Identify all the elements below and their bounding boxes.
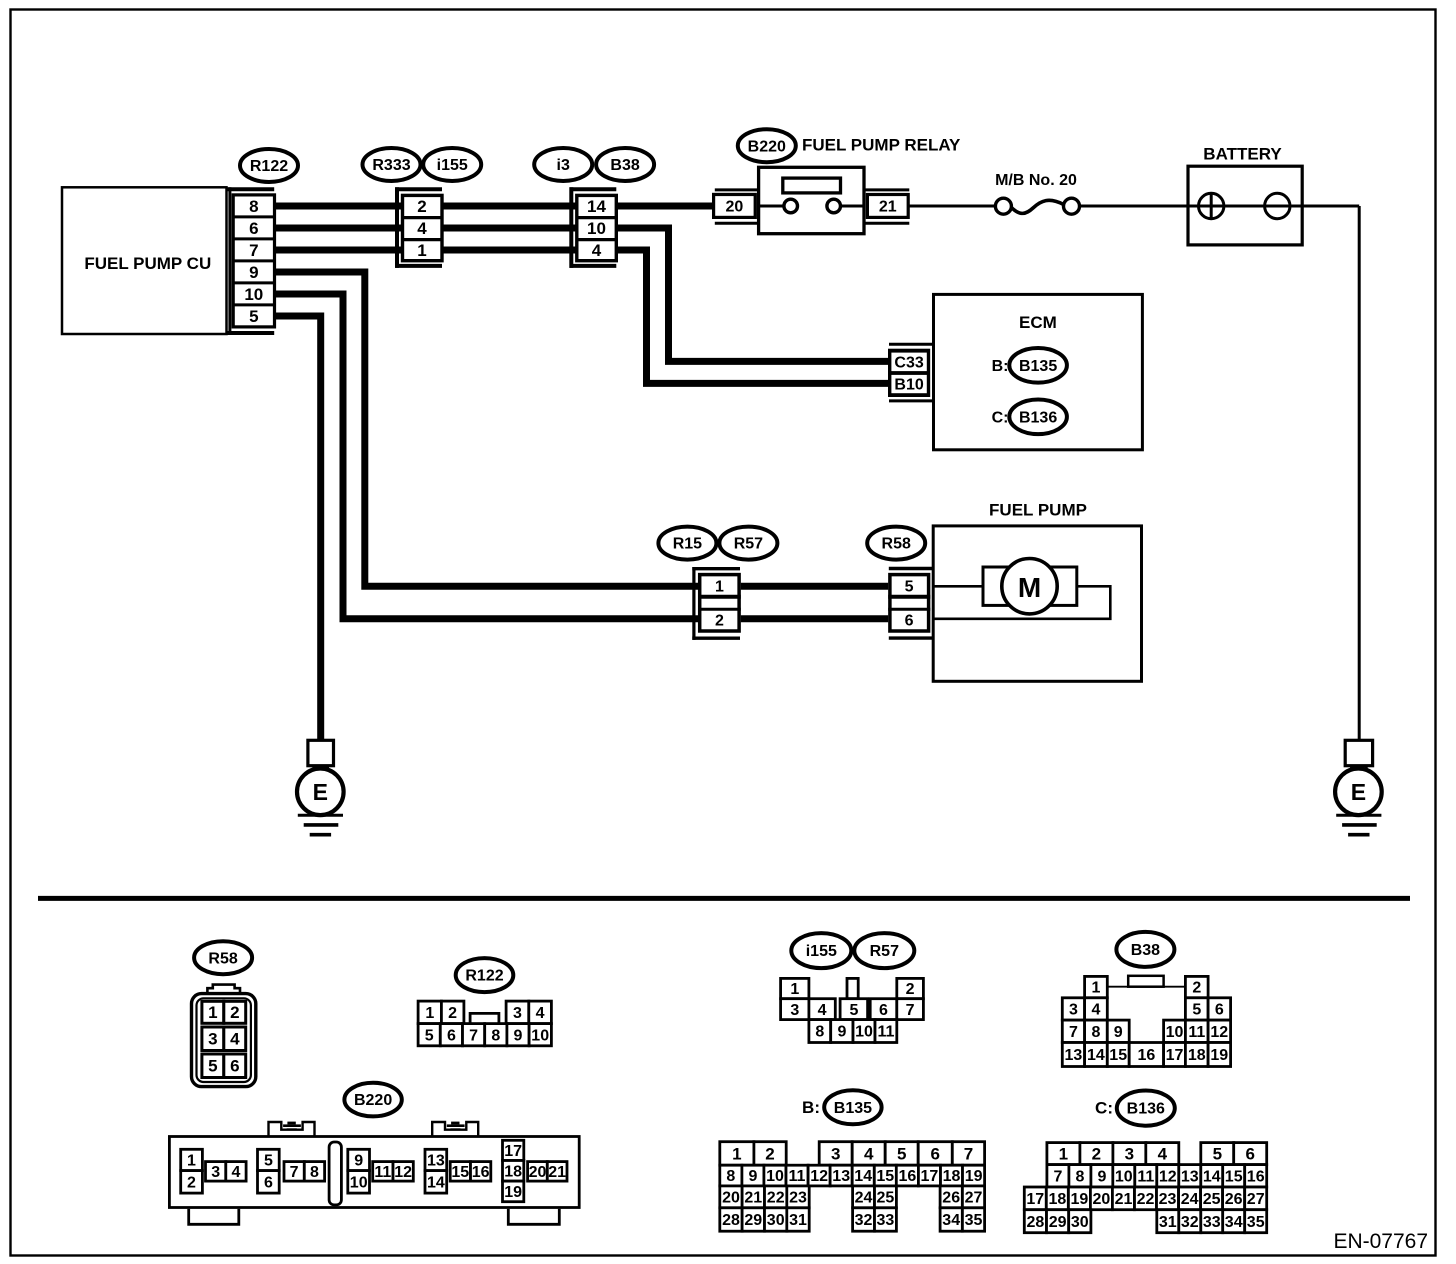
pump internal wire loop <box>933 586 1110 619</box>
svg-text:4: 4 <box>417 219 427 238</box>
svg-text:C:: C: <box>992 409 1009 426</box>
fuse terminal circle right <box>1064 198 1080 214</box>
svg-text:1: 1 <box>425 1005 434 1022</box>
svg-text:6: 6 <box>264 1174 273 1191</box>
B220 center key slot <box>329 1142 341 1205</box>
svg-text:19: 19 <box>504 1184 522 1201</box>
fuel pump control unit box <box>62 187 227 334</box>
pinout label B135 <box>824 1090 881 1124</box>
svg-text:R57: R57 <box>870 943 899 960</box>
svg-text:11: 11 <box>789 1168 806 1185</box>
R58 pinout housing <box>192 985 256 1087</box>
right ground symbol E <box>1335 740 1382 834</box>
svg-text:9: 9 <box>354 1153 363 1170</box>
svg-text:7: 7 <box>290 1164 299 1181</box>
wire CU pin7 to R333 pin1 <box>275 247 403 254</box>
svg-text:10: 10 <box>244 285 263 304</box>
pinout label B38 <box>1116 932 1174 967</box>
svg-text:5: 5 <box>1192 1002 1201 1019</box>
svg-text:9: 9 <box>249 263 258 282</box>
connector label B136 in ECM <box>1009 400 1067 435</box>
svg-text:8: 8 <box>815 1024 824 1041</box>
svg-text:5: 5 <box>905 578 914 595</box>
svg-text:15: 15 <box>1225 1168 1243 1185</box>
svg-text:11: 11 <box>374 1164 391 1181</box>
svg-text:24: 24 <box>855 1190 873 1207</box>
wire CU pin5 to ground E <box>275 316 321 741</box>
svg-text:4: 4 <box>536 1005 545 1022</box>
svg-text:8: 8 <box>491 1027 500 1044</box>
svg-text:B135: B135 <box>834 1100 872 1117</box>
svg-text:10: 10 <box>855 1024 873 1041</box>
svg-text:8: 8 <box>1091 1024 1100 1041</box>
svg-text:20: 20 <box>722 1190 740 1207</box>
relay coil symbol <box>783 178 841 193</box>
svg-text:30: 30 <box>1071 1214 1089 1231</box>
pinout label R58 <box>194 941 252 974</box>
battery internal line <box>1188 205 1359 208</box>
B220 pinout housing <box>169 1137 579 1208</box>
left ground symbol E <box>297 740 344 834</box>
svg-text:22: 22 <box>767 1190 785 1207</box>
svg-text:B38: B38 <box>610 157 639 174</box>
svg-text:5: 5 <box>208 1057 217 1076</box>
fuse element wave <box>1011 200 1063 213</box>
wire R57 pin1 to R58 pin5 <box>741 583 888 590</box>
svg-text:4: 4 <box>864 1144 874 1163</box>
svg-text:25: 25 <box>877 1190 895 1207</box>
ECM connector pin box C33 B10 <box>888 349 930 397</box>
svg-text:13: 13 <box>1181 1168 1199 1185</box>
svg-text:25: 25 <box>1203 1191 1221 1208</box>
svg-text:R333: R333 <box>372 157 410 174</box>
svg-text:2: 2 <box>715 613 724 630</box>
svg-text:28: 28 <box>722 1212 740 1229</box>
svg-text:M: M <box>1018 572 1041 603</box>
svg-text:13: 13 <box>427 1153 445 1170</box>
svg-text:11: 11 <box>1188 1024 1205 1041</box>
svg-text:4: 4 <box>1091 1002 1100 1019</box>
connector R333/i155 bracket <box>395 187 442 268</box>
svg-text:31: 31 <box>1159 1214 1177 1231</box>
svg-text:4: 4 <box>592 241 602 260</box>
connector label i3 <box>534 148 592 181</box>
svg-text:7: 7 <box>1053 1168 1062 1185</box>
svg-text:6: 6 <box>1245 1145 1254 1164</box>
svg-text:i3: i3 <box>557 157 570 174</box>
svg-text:3: 3 <box>1069 1002 1078 1019</box>
wire R57 pin2 to R58 pin6 <box>741 615 888 622</box>
svg-text:7: 7 <box>964 1144 973 1163</box>
wire relay pin21 to fuse <box>908 205 995 208</box>
svg-text:9: 9 <box>837 1024 846 1041</box>
svg-text:10: 10 <box>1115 1168 1133 1185</box>
connector R58 pin box pins 5 6 <box>888 575 930 631</box>
connector label B220 <box>738 129 796 162</box>
svg-text:M/B No. 20: M/B No. 20 <box>995 172 1077 189</box>
svg-text:8: 8 <box>249 197 258 216</box>
B136 pinout pins 1-35 <box>1024 1143 1266 1233</box>
R122 pinout pins 1-10 <box>418 1001 551 1046</box>
svg-text:8: 8 <box>726 1168 735 1185</box>
svg-text:12: 12 <box>1159 1168 1177 1185</box>
svg-text:10: 10 <box>531 1027 549 1044</box>
svg-text:11: 11 <box>877 1024 894 1041</box>
svg-text:2: 2 <box>230 1003 239 1022</box>
svg-text:24: 24 <box>1181 1191 1199 1208</box>
svg-text:3: 3 <box>211 1164 220 1181</box>
svg-text:23: 23 <box>1159 1191 1177 1208</box>
svg-text:R58: R58 <box>882 536 911 553</box>
svg-text:E: E <box>313 779 328 805</box>
battery positive terminal <box>1199 193 1224 218</box>
svg-text:11: 11 <box>1137 1168 1154 1185</box>
wire i3 pin4 to ECM B10 <box>616 250 893 383</box>
svg-text:B10: B10 <box>894 377 923 394</box>
svg-text:14: 14 <box>587 197 606 216</box>
pinout label B220 <box>344 1083 401 1117</box>
svg-text:33: 33 <box>1203 1214 1221 1231</box>
relay contact circle right <box>827 199 841 213</box>
svg-text:19: 19 <box>965 1168 983 1185</box>
svg-text:C33: C33 <box>894 354 923 371</box>
svg-text:17: 17 <box>504 1143 522 1160</box>
svg-text:1: 1 <box>790 981 799 998</box>
svg-text:2: 2 <box>417 197 426 216</box>
svg-text:6: 6 <box>249 219 258 238</box>
svg-text:3: 3 <box>513 1005 522 1022</box>
connector R122 pin box pins 8 6 7 9 10 5 <box>233 195 274 327</box>
svg-text:1: 1 <box>715 578 724 595</box>
fuel pump box <box>933 526 1141 681</box>
svg-text:R122: R122 <box>250 158 288 175</box>
relay contact line left <box>759 205 785 208</box>
svg-text:7: 7 <box>906 1002 915 1019</box>
wire battery negative to right ground <box>1358 206 1361 741</box>
svg-text:21: 21 <box>1115 1191 1133 1208</box>
svg-text:35: 35 <box>1247 1214 1265 1231</box>
svg-text:9: 9 <box>1114 1024 1123 1041</box>
svg-text:R58: R58 <box>208 950 237 967</box>
wire CU pin8 to R333 pin2 <box>275 203 403 210</box>
svg-text:30: 30 <box>767 1212 785 1229</box>
svg-text:B220: B220 <box>354 1092 392 1109</box>
connector R333/i155 pin box pins 2 4 1 <box>403 195 443 260</box>
svg-text:23: 23 <box>789 1190 807 1207</box>
svg-text:ECM: ECM <box>1019 313 1057 332</box>
relay pin 21 connector <box>866 190 910 223</box>
connector label R122 <box>240 149 298 182</box>
svg-text:E: E <box>1351 779 1366 805</box>
svg-text:4: 4 <box>232 1164 241 1181</box>
svg-text:12: 12 <box>1210 1024 1228 1041</box>
connector R15/R57 bracket <box>692 567 740 640</box>
connector label B38 <box>596 148 654 181</box>
svg-text:17: 17 <box>1166 1047 1184 1064</box>
svg-text:18: 18 <box>1049 1191 1067 1208</box>
svg-text:27: 27 <box>1247 1191 1265 1208</box>
svg-text:B:: B: <box>802 1098 820 1117</box>
svg-text:10: 10 <box>1166 1024 1184 1041</box>
svg-text:5: 5 <box>249 307 258 326</box>
i155/R57 pinout pins 1-11 <box>781 978 924 1042</box>
svg-text:i155: i155 <box>437 157 468 174</box>
svg-text:7: 7 <box>469 1027 478 1044</box>
svg-text:31: 31 <box>789 1212 807 1229</box>
connector R122 bracket <box>227 187 274 335</box>
wire CU pin9 to R15 pin1 <box>275 272 699 586</box>
svg-text:15: 15 <box>876 1168 894 1185</box>
R58 pinout pins 1-6 <box>202 1001 246 1077</box>
svg-text:15: 15 <box>451 1164 469 1181</box>
svg-text:19: 19 <box>1210 1047 1228 1064</box>
svg-text:20: 20 <box>529 1164 547 1181</box>
battery box <box>1188 166 1302 245</box>
svg-text:27: 27 <box>965 1190 983 1207</box>
svg-text:3: 3 <box>831 1144 840 1163</box>
svg-text:2: 2 <box>187 1174 196 1191</box>
svg-text:10: 10 <box>766 1168 784 1185</box>
B135 pinout pins 1-35 <box>720 1142 985 1232</box>
svg-text:4: 4 <box>230 1030 240 1049</box>
B38 pinout housing top <box>1107 976 1185 987</box>
svg-text:C:: C: <box>1095 1099 1113 1118</box>
svg-text:1: 1 <box>417 241 426 260</box>
connector label R15 <box>658 527 716 560</box>
svg-text:4: 4 <box>818 1002 827 1019</box>
svg-text:FUEL PUMP RELAY: FUEL PUMP RELAY <box>802 135 961 154</box>
svg-text:28: 28 <box>1027 1214 1045 1231</box>
svg-text:5: 5 <box>1213 1145 1222 1164</box>
connector label B135 in ECM <box>1009 348 1067 383</box>
svg-text:B136: B136 <box>1127 1101 1165 1118</box>
svg-text:8: 8 <box>1075 1168 1084 1185</box>
svg-text:2: 2 <box>906 981 915 998</box>
svg-text:BATTERY: BATTERY <box>1203 144 1282 163</box>
svg-text:B220: B220 <box>748 138 786 155</box>
svg-text:32: 32 <box>1181 1214 1199 1231</box>
svg-text:21: 21 <box>548 1164 566 1181</box>
svg-text:7: 7 <box>1069 1024 1078 1041</box>
wire CU pin10 to R15 pin2 <box>275 294 699 619</box>
relay pin 20 connector <box>714 190 759 223</box>
svg-text:3: 3 <box>208 1030 217 1049</box>
pinout label R57 <box>854 933 914 968</box>
fuse terminal circle left <box>995 198 1011 214</box>
pump motor terminal box <box>983 567 1077 605</box>
connector i3/B38 bracket <box>570 187 617 268</box>
svg-text:6: 6 <box>447 1027 456 1044</box>
svg-text:9: 9 <box>748 1168 757 1185</box>
B220 housing bottom tab left <box>189 1209 239 1224</box>
svg-text:9: 9 <box>1097 1168 1106 1185</box>
svg-text:10: 10 <box>350 1174 368 1191</box>
svg-text:26: 26 <box>1225 1191 1243 1208</box>
B220 housing bottom tab right <box>508 1209 559 1224</box>
svg-text:i155: i155 <box>806 943 837 960</box>
section separator line <box>38 896 1410 901</box>
svg-text:13: 13 <box>832 1168 850 1185</box>
svg-text:6: 6 <box>905 613 914 630</box>
svg-text:22: 22 <box>1137 1191 1155 1208</box>
svg-text:34: 34 <box>942 1212 960 1229</box>
svg-text:15: 15 <box>1109 1047 1127 1064</box>
svg-text:16: 16 <box>472 1164 490 1181</box>
svg-text:18: 18 <box>1188 1047 1206 1064</box>
svg-text:14: 14 <box>854 1168 872 1185</box>
svg-text:29: 29 <box>744 1212 762 1229</box>
svg-text:13: 13 <box>1065 1047 1083 1064</box>
pinout label i155 <box>791 933 851 968</box>
svg-text:6: 6 <box>879 1002 888 1019</box>
svg-text:R15: R15 <box>673 536 702 553</box>
svg-text:R122: R122 <box>465 968 503 985</box>
connector label R57 <box>719 527 777 560</box>
svg-text:B135: B135 <box>1019 358 1057 375</box>
svg-text:34: 34 <box>1225 1214 1243 1231</box>
wire i3 pin14 to relay pin20 <box>616 203 714 210</box>
wire fuse to battery <box>1080 205 1189 208</box>
connector R15/R57 pin box pins 1 2 <box>698 575 741 631</box>
svg-text:17: 17 <box>1026 1191 1044 1208</box>
connector R58 bracket at pump <box>889 569 933 639</box>
connector i3/B38 pin box pins 14 10 4 <box>577 195 617 260</box>
svg-text:17: 17 <box>921 1168 939 1185</box>
svg-text:21: 21 <box>879 199 897 216</box>
svg-text:3: 3 <box>790 1002 799 1019</box>
wire R333 pin2 to i3 pin14 <box>442 203 577 210</box>
svg-text:16: 16 <box>1138 1047 1156 1064</box>
B38 pinout pins 1-19 <box>1062 976 1230 1066</box>
relay contact circle left <box>784 199 798 213</box>
svg-text:8: 8 <box>310 1164 319 1181</box>
svg-text:6: 6 <box>930 1144 939 1163</box>
pinout label R122 <box>456 958 514 992</box>
svg-text:5: 5 <box>849 1002 858 1019</box>
svg-text:20: 20 <box>726 199 744 216</box>
svg-text:16: 16 <box>1247 1168 1265 1185</box>
battery negative terminal <box>1265 193 1290 218</box>
svg-text:2: 2 <box>1192 980 1201 997</box>
svg-text:1: 1 <box>1091 980 1100 997</box>
svg-text:5: 5 <box>897 1144 906 1163</box>
svg-text:EN-07767: EN-07767 <box>1333 1230 1428 1253</box>
svg-text:18: 18 <box>943 1168 961 1185</box>
svg-text:12: 12 <box>394 1164 412 1181</box>
relay contact line right <box>840 205 865 208</box>
wire CU pin6 to R333 pin4 <box>275 225 403 232</box>
B220 pinout pins 1-21 <box>181 1140 567 1201</box>
svg-text:B38: B38 <box>1131 942 1160 959</box>
svg-text:4: 4 <box>1158 1145 1168 1164</box>
wire R333 pin1 to i3 pin4 <box>442 247 577 254</box>
svg-text:10: 10 <box>587 219 606 238</box>
svg-text:14: 14 <box>1087 1047 1105 1064</box>
pump motor M <box>1002 559 1057 614</box>
svg-text:FUEL PUMP: FUEL PUMP <box>989 501 1087 520</box>
ECM box <box>934 294 1143 449</box>
svg-text:20: 20 <box>1093 1191 1111 1208</box>
svg-text:26: 26 <box>942 1190 960 1207</box>
pinout label B136 <box>1117 1091 1175 1126</box>
connector C33/B10 bracket <box>889 344 934 401</box>
connector label i155 <box>423 148 481 181</box>
connector label R58 at pump <box>867 527 925 560</box>
svg-text:12: 12 <box>810 1168 828 1185</box>
B220 housing top tab right <box>432 1122 478 1136</box>
svg-text:2: 2 <box>765 1144 774 1163</box>
svg-text:6: 6 <box>230 1057 239 1076</box>
svg-text:33: 33 <box>877 1212 895 1229</box>
wire i3 pin10 to ECM C33 <box>616 228 893 361</box>
svg-text:14: 14 <box>427 1174 445 1191</box>
svg-text:1: 1 <box>208 1003 217 1022</box>
svg-text:7: 7 <box>249 241 258 260</box>
svg-text:B:: B: <box>992 358 1009 375</box>
svg-text:16: 16 <box>899 1168 917 1185</box>
svg-text:18: 18 <box>504 1163 522 1180</box>
pump internal wire left <box>933 585 983 588</box>
svg-text:5: 5 <box>264 1153 273 1170</box>
fuel pump relay box B220 <box>759 167 864 233</box>
svg-text:FUEL PUMP CU: FUEL PUMP CU <box>84 254 211 273</box>
svg-text:2: 2 <box>448 1005 457 1022</box>
B220 housing top tab left <box>269 1122 315 1136</box>
svg-text:1: 1 <box>732 1144 741 1163</box>
svg-text:3: 3 <box>1125 1145 1134 1164</box>
svg-text:6: 6 <box>1215 1002 1224 1019</box>
svg-text:14: 14 <box>1203 1168 1221 1185</box>
svg-text:5: 5 <box>425 1027 434 1044</box>
svg-text:19: 19 <box>1071 1191 1089 1208</box>
svg-text:1: 1 <box>1059 1145 1068 1164</box>
svg-text:32: 32 <box>855 1212 873 1229</box>
svg-text:9: 9 <box>514 1027 523 1044</box>
connector label R333 <box>363 148 421 181</box>
svg-text:35: 35 <box>965 1212 983 1229</box>
wire R333 pin4 to i3 pin10 <box>442 225 577 232</box>
svg-text:29: 29 <box>1049 1214 1067 1231</box>
svg-text:21: 21 <box>744 1190 762 1207</box>
svg-text:1: 1 <box>187 1153 196 1170</box>
svg-text:R57: R57 <box>734 536 763 553</box>
svg-text:2: 2 <box>1092 1145 1101 1164</box>
svg-text:B136: B136 <box>1019 409 1057 426</box>
